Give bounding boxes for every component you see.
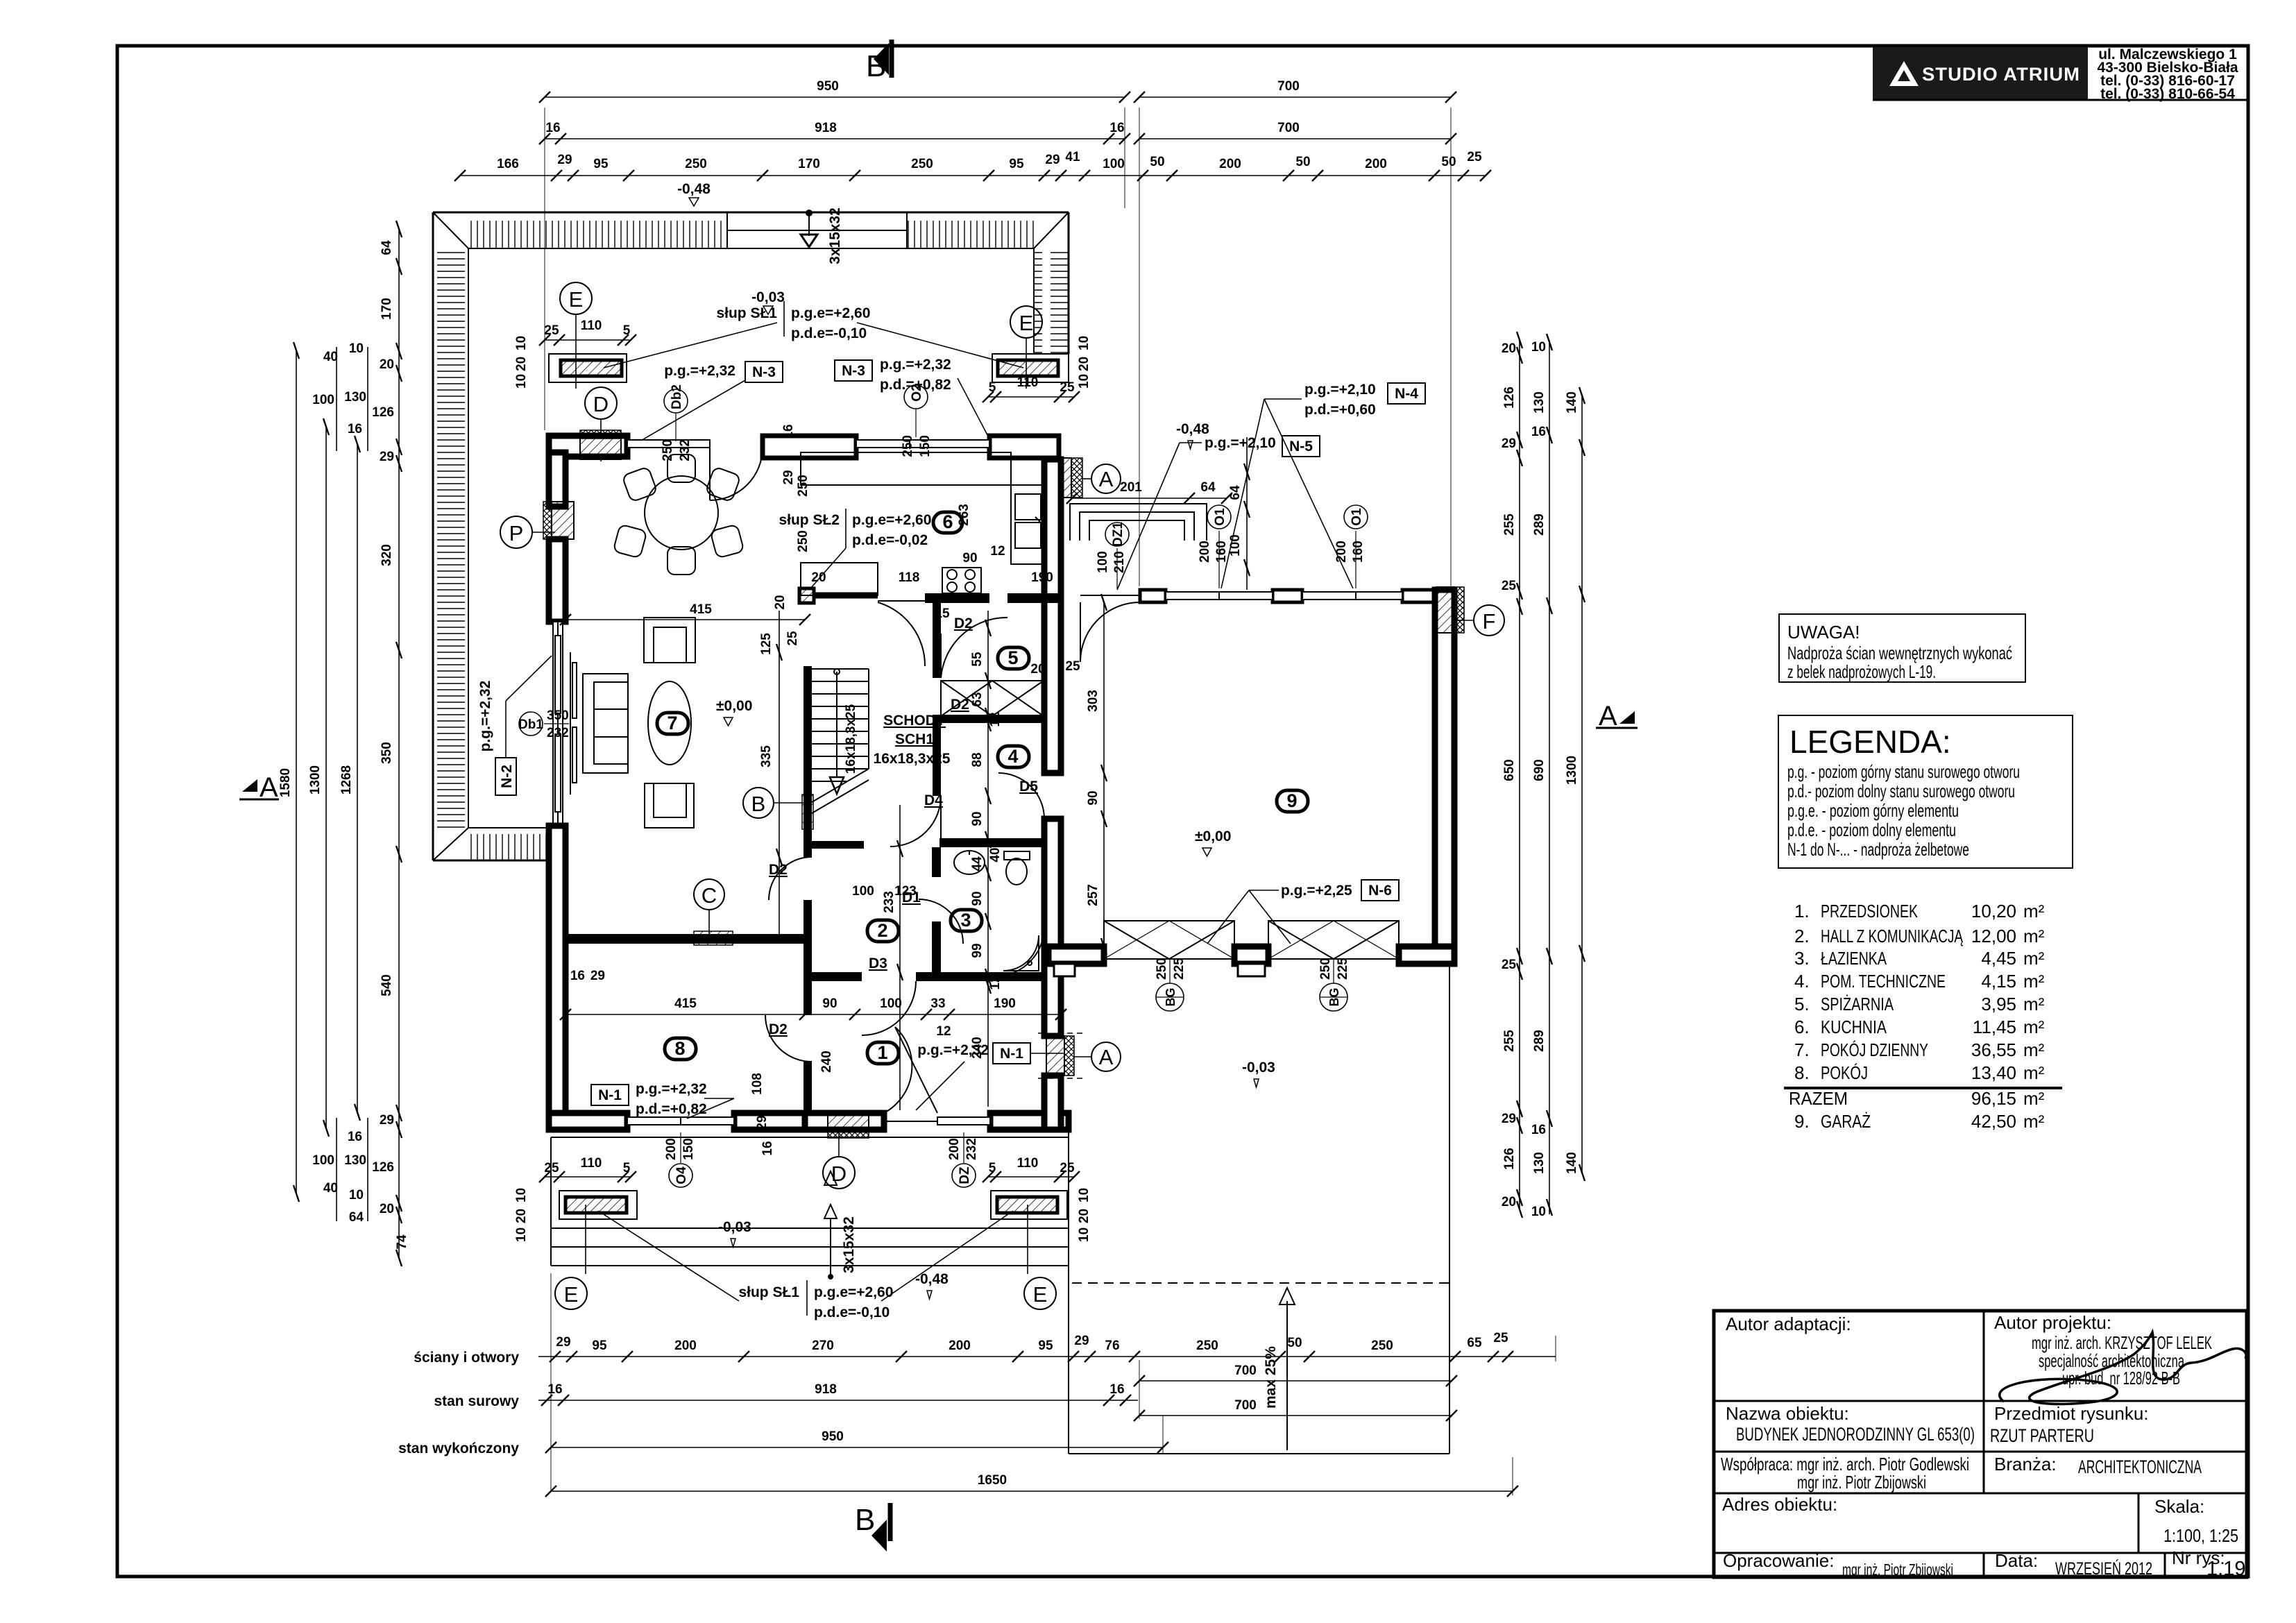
svg-text:ŁAZIENKA: ŁAZIENKA — [1821, 948, 1887, 969]
svg-text:650: 650 — [1502, 759, 1517, 781]
svg-text:130: 130 — [344, 390, 366, 405]
svg-text:918: 918 — [815, 121, 837, 135]
door D2 hall upper arc — [769, 857, 812, 900]
svg-text:170: 170 — [798, 157, 820, 171]
dim bottom row 3 — [545, 1442, 1168, 1453]
door D2 spiżarnia arc — [941, 618, 1007, 678]
elevation -0,03 bottom terrace — [718, 1219, 751, 1247]
svg-text:N-1 do N-... - nadproża żelbet: N-1 do N-... - nadproża żelbetowe — [1787, 839, 1969, 860]
DZ1 circle label — [1096, 522, 1129, 588]
door D2 hall lower arc — [765, 1015, 812, 1062]
svg-text:126: 126 — [1502, 1148, 1517, 1170]
svg-text:64: 64 — [349, 1210, 364, 1225]
kitchen right counter with sink — [1011, 485, 1044, 564]
svg-text:10: 10 — [1077, 1227, 1091, 1242]
dim 25|110|5 bottom-left footing — [539, 1171, 636, 1182]
svg-text:29: 29 — [590, 969, 605, 983]
svg-text:29: 29 — [1502, 436, 1516, 451]
O1 circle label right — [1334, 505, 1368, 588]
svg-text:250: 250 — [685, 157, 707, 171]
svg-text:3: 3 — [960, 910, 971, 931]
svg-text:415: 415 — [674, 996, 697, 1011]
svg-text:16: 16 — [1109, 121, 1124, 135]
svg-text:p.d.e=-0,10: p.d.e=-0,10 — [814, 1305, 890, 1320]
dim 201|64 above garage — [1066, 493, 1232, 504]
svg-text:16: 16 — [348, 422, 362, 436]
svg-text:12: 12 — [936, 1024, 951, 1039]
pom.tech left wall — [933, 723, 941, 796]
svg-text:-0,48: -0,48 — [677, 181, 711, 197]
svg-text:140: 140 — [1565, 391, 1579, 414]
svg-text:190: 190 — [994, 996, 1016, 1011]
svg-text:p.g.e=+2,60: p.g.e=+2,60 — [791, 305, 870, 321]
D marker top — [585, 387, 617, 461]
left outer wall upper — [549, 452, 566, 507]
column footing top-right with E marker — [992, 306, 1069, 389]
svg-text:p.g.=+2,32: p.g.=+2,32 — [636, 1081, 707, 1097]
svg-text:B: B — [751, 792, 766, 816]
elevation ±0,00 room7 — [716, 698, 752, 726]
O4 circle label bottom — [664, 1132, 696, 1187]
svg-text:16: 16 — [1531, 1123, 1546, 1137]
dim bottom row 4 — [545, 1486, 1518, 1497]
N-1 box left with leader — [591, 1081, 734, 1119]
svg-text:SPIŻARNIA: SPIŻARNIA — [1821, 994, 1894, 1014]
svg-text:335: 335 — [759, 745, 774, 767]
svg-text:A: A — [1099, 467, 1114, 491]
svg-text:Skala:: Skala: — [2154, 1496, 2204, 1517]
svg-text:E: E — [1019, 311, 1034, 335]
hall top wall — [807, 838, 1042, 849]
svg-text:918: 918 — [815, 1382, 837, 1397]
svg-text:25: 25 — [1493, 1331, 1508, 1345]
svg-text:E: E — [569, 287, 584, 312]
dim row top 16|918|16 / 700 — [539, 133, 1456, 144]
door D3 arc — [862, 981, 916, 1035]
svg-text:130: 130 — [1532, 391, 1547, 414]
svg-text:p.g.e=+2,60: p.g.e=+2,60 — [852, 512, 931, 528]
svg-text:Opracowanie:: Opracowanie: — [1723, 1550, 1834, 1571]
svg-text:10: 10 — [514, 1227, 529, 1242]
window O4 bottom 200/150 — [627, 1117, 734, 1125]
svg-text:8.: 8. — [1794, 1062, 1810, 1083]
extension lines bottom — [551, 1273, 1556, 1495]
room number ovals — [657, 511, 1308, 1064]
svg-text:41: 41 — [1065, 150, 1080, 164]
svg-text:110: 110 — [1017, 375, 1039, 390]
svg-text:C: C — [701, 883, 717, 908]
svg-text:289: 289 — [1532, 1030, 1547, 1052]
svg-text:55: 55 — [970, 652, 985, 667]
svg-text:33: 33 — [930, 996, 945, 1011]
svg-text:190: 190 — [1031, 570, 1053, 585]
svg-text:125: 125 — [759, 633, 774, 655]
svg-text:N-4: N-4 — [1395, 386, 1418, 402]
svg-text:100: 100 — [312, 1153, 334, 1168]
svg-text:m²: m² — [2023, 1111, 2045, 1132]
svg-text:1.: 1. — [1794, 901, 1810, 921]
svg-text:29: 29 — [1074, 1334, 1089, 1348]
door D5 arc garage — [998, 773, 1044, 819]
interior dim line room7 — [776, 611, 782, 934]
svg-text:p.g.=+2,10: p.g.=+2,10 — [1205, 435, 1276, 451]
B marker mid — [743, 788, 803, 818]
dim 25|110|5 above left footing — [539, 334, 636, 346]
DZ circle label bottom — [947, 1132, 979, 1187]
svg-text:126: 126 — [372, 405, 394, 420]
svg-text:25: 25 — [1060, 380, 1075, 395]
svg-text:90: 90 — [970, 891, 985, 906]
N-5 leader — [1117, 435, 1320, 590]
svg-text:P: P — [509, 521, 524, 545]
WALLS: outer wall top-left corner — [549, 430, 627, 459]
svg-text:20: 20 — [811, 570, 826, 585]
svg-text:240: 240 — [819, 1051, 834, 1073]
small interior dims — [570, 424, 1080, 1155]
svg-text:10: 10 — [514, 374, 529, 389]
svg-text:4,15: 4,15 — [1981, 971, 2016, 992]
svg-text:240: 240 — [970, 1037, 985, 1059]
svg-text:tel. (0-33) 810-66-54: tel. (0-33) 810-66-54 — [2100, 86, 2235, 102]
logo bar STUDIO ATRIUM — [1873, 47, 2248, 100]
svg-text:200: 200 — [1219, 157, 1241, 171]
svg-text:D: D — [831, 1162, 847, 1186]
svg-text:N-3: N-3 — [752, 364, 776, 380]
svg-text:110: 110 — [581, 318, 602, 333]
svg-text:SCHODY: SCHODY — [883, 713, 946, 729]
garage corner pier F (hatched) — [1436, 587, 1464, 633]
roof overhang hatched band bottom-left segment — [433, 828, 549, 860]
svg-text:88: 88 — [970, 752, 985, 767]
svg-text:29: 29 — [380, 1113, 394, 1128]
interior dim row 415 y893 — [560, 614, 810, 625]
svg-text:232: 232 — [547, 726, 569, 740]
svg-text:40: 40 — [323, 1181, 338, 1196]
svg-text:270: 270 — [812, 1339, 834, 1353]
svg-text:N-3: N-3 — [842, 363, 865, 379]
svg-text:3,95: 3,95 — [1981, 994, 2016, 1014]
svg-text:100: 100 — [1103, 157, 1125, 171]
svg-text:D3: D3 — [869, 955, 887, 971]
svg-text:20: 20 — [1077, 1209, 1091, 1223]
svg-text:16x18,3x25: 16x18,3x25 — [874, 751, 951, 767]
svg-text:50: 50 — [1287, 1336, 1302, 1350]
spiżarnia left wall — [933, 603, 941, 634]
słup SŁ1 leader text top — [604, 301, 1023, 368]
svg-text:p.g.e. - poziom górny elementu: p.g.e. - poziom górny elementu — [1787, 800, 1959, 821]
svg-text:6.: 6. — [1794, 1017, 1810, 1037]
A section marker right — [1596, 701, 1638, 731]
right outer wall of house — [1044, 459, 1061, 1130]
O2 circle label — [901, 384, 933, 457]
svg-text:1: 1 — [877, 1042, 887, 1063]
svg-text:D: D — [593, 392, 609, 416]
svg-text:Branża:: Branża: — [1994, 1454, 2057, 1475]
svg-text:29: 29 — [1045, 153, 1060, 167]
svg-text:950: 950 — [822, 1429, 844, 1444]
svg-text:1300: 1300 — [308, 765, 323, 794]
svg-text:20: 20 — [1077, 357, 1091, 371]
svg-text:16: 16 — [760, 1141, 775, 1155]
svg-text:10: 10 — [1531, 340, 1546, 355]
svg-text:WRZESIEŃ 2012: WRZESIEŃ 2012 — [2055, 1558, 2152, 1579]
D marker bottom — [823, 1132, 855, 1189]
svg-text:20: 20 — [1502, 341, 1516, 356]
svg-text:250: 250 — [796, 530, 810, 552]
svg-text:1580: 1580 — [278, 768, 293, 797]
door D2 kitchen arc — [878, 602, 925, 666]
column footing bottom-right — [991, 1191, 1067, 1309]
kitchen top counter — [801, 452, 1011, 485]
svg-text:m²: m² — [2023, 1088, 2045, 1109]
garage window O1 left — [1166, 592, 1273, 600]
svg-text:50: 50 — [1441, 155, 1456, 169]
svg-text:O2: O2 — [910, 384, 924, 401]
N-1 box right with leader — [916, 1042, 1064, 1110]
svg-text:100: 100 — [1228, 534, 1243, 556]
Db1 circle label — [518, 708, 569, 740]
B section marker bottom — [855, 1503, 890, 1552]
svg-text:Nazwa obiektu:: Nazwa obiektu: — [1726, 1403, 1849, 1424]
svg-text:232: 232 — [678, 439, 692, 461]
svg-text:20: 20 — [1502, 1195, 1516, 1209]
svg-text:250: 250 — [796, 475, 810, 497]
svg-text:25: 25 — [1502, 579, 1517, 593]
svg-text:20: 20 — [380, 1202, 394, 1216]
roof overhang hatched band left — [433, 212, 468, 860]
svg-text:5: 5 — [623, 1161, 631, 1175]
svg-text:210: 210 — [1112, 551, 1127, 573]
svg-text:7: 7 — [667, 713, 677, 733]
svg-text:16: 16 — [1531, 425, 1546, 439]
signature — [2000, 1332, 2246, 1404]
A marker bottom — [1074, 1042, 1121, 1071]
B section marker top — [866, 40, 892, 83]
door D4 arc — [890, 796, 941, 847]
F marker — [1456, 605, 1504, 636]
svg-text:289: 289 — [1532, 513, 1547, 536]
svg-text:42,50: 42,50 — [1971, 1111, 2016, 1132]
svg-text:12: 12 — [990, 544, 1005, 559]
svg-text:POKÓJ DZIENNY: POKÓJ DZIENNY — [1821, 1039, 1928, 1060]
bathroom washbasin — [954, 851, 985, 874]
svg-text:5: 5 — [1007, 647, 1018, 668]
svg-text:KUCHNIA: KUCHNIA — [1821, 1017, 1887, 1037]
svg-text:16: 16 — [781, 424, 796, 439]
svg-text:130: 130 — [344, 1153, 366, 1168]
svg-text:m²: m² — [2023, 1017, 2045, 1037]
svg-text:350: 350 — [547, 708, 569, 723]
svg-text:95: 95 — [1009, 157, 1024, 171]
svg-text:950: 950 — [817, 79, 839, 94]
roof overhang hatched band top — [433, 212, 1069, 248]
svg-text:11,45: 11,45 — [1973, 1017, 2016, 1037]
svg-text:225: 225 — [1172, 958, 1187, 980]
svg-text:ARCHITEKTONICZNA: ARCHITEKTONICZNA — [2078, 1456, 2202, 1477]
svg-text:90: 90 — [962, 551, 977, 566]
BG circle 1 — [1155, 958, 1187, 1011]
svg-text:E: E — [1033, 1282, 1048, 1307]
dim bottom row 1 chain — [538, 1351, 1556, 1362]
svg-text:4.: 4. — [1794, 971, 1810, 992]
svg-text:700: 700 — [1234, 1398, 1257, 1413]
svg-text:±0,00: ±0,00 — [1195, 829, 1231, 844]
svg-text:Db1: Db1 — [518, 717, 543, 732]
svg-text:20: 20 — [1030, 662, 1045, 677]
N-6 leader garage — [1207, 880, 1399, 944]
svg-text:p.g. - poziom górny stanu suro: p.g. - poziom górny stanu surowego otwor… — [1787, 761, 2020, 782]
max 25% ramp arrow — [1263, 1288, 1295, 1450]
svg-text:123: 123 — [894, 884, 917, 899]
svg-text:D5: D5 — [1019, 779, 1038, 794]
svg-text:100: 100 — [880, 996, 902, 1011]
svg-text:N-1: N-1 — [598, 1087, 622, 1103]
svg-text:Adres obiektu:: Adres obiektu: — [1722, 1494, 1837, 1515]
svg-text:-0,48: -0,48 — [915, 1271, 949, 1287]
svg-text:700: 700 — [1277, 121, 1300, 135]
svg-text:170: 170 — [380, 298, 394, 320]
svg-text:118: 118 — [899, 570, 920, 585]
svg-text:A: A — [1099, 1045, 1114, 1069]
svg-text:Data:: Data: — [1995, 1550, 2038, 1571]
svg-text:100: 100 — [1096, 551, 1110, 573]
garage window O1 right — [1302, 592, 1402, 600]
svg-text:99: 99 — [970, 943, 985, 958]
svg-text:8: 8 — [674, 1038, 685, 1059]
svg-text:N-2: N-2 — [499, 765, 515, 788]
rotated 10 20 10 right footing — [1077, 336, 1091, 389]
svg-text:25: 25 — [1065, 659, 1080, 674]
dim row top detailed chain — [454, 170, 1491, 181]
svg-text:29: 29 — [755, 1115, 769, 1130]
dim 64|100 rotated right of chimney — [1244, 437, 1250, 590]
svg-text:263: 263 — [957, 504, 971, 526]
svg-text:257: 257 — [1086, 884, 1100, 906]
A section marker left — [239, 772, 279, 803]
svg-text:BG: BG — [1327, 988, 1341, 1007]
column footing top-left with E marker — [549, 282, 627, 389]
svg-text:p.g.=+2,32: p.g.=+2,32 — [477, 681, 493, 752]
svg-text:m²: m² — [2023, 971, 2045, 992]
dim bottom row labels — [398, 1350, 519, 1456]
dim right chain 3 — [1579, 387, 1585, 1181]
svg-text:690: 690 — [1532, 759, 1547, 781]
window DZ bottom 200/232 — [937, 1117, 990, 1125]
svg-text:Przedmiot rysunku:: Przedmiot rysunku: — [1994, 1403, 2149, 1424]
svg-text:3x15x32: 3x15x32 — [827, 207, 843, 264]
dim 5|110|25 above right footing — [983, 391, 1080, 402]
door DZ1 garage arc — [1080, 595, 1140, 662]
dim left col 1268 — [355, 436, 360, 1121]
elevation -0,48 top — [677, 181, 711, 206]
svg-text:N-1: N-1 — [1000, 1046, 1023, 1062]
svg-text:50: 50 — [1150, 155, 1164, 169]
svg-text:166: 166 — [497, 157, 519, 171]
room schedule table — [1784, 901, 2062, 1132]
svg-text:16: 16 — [1109, 1382, 1124, 1397]
svg-text:POM. TECHNICZNE: POM. TECHNICZNE — [1821, 971, 1946, 992]
svg-text:m²: m² — [2023, 901, 2045, 921]
svg-text:1.19: 1.19 — [2206, 1558, 2245, 1580]
svg-text:1268: 1268 — [339, 765, 354, 794]
svg-text:250: 250 — [901, 435, 915, 457]
svg-text:10: 10 — [1531, 1205, 1546, 1219]
left outer wall middle — [549, 539, 566, 622]
svg-text:40: 40 — [988, 847, 1003, 862]
svg-text:7.: 7. — [1794, 1039, 1810, 1060]
svg-text:A: A — [260, 772, 278, 803]
dim right chain 2 — [1547, 334, 1552, 1216]
svg-text:UWAGA!: UWAGA! — [1787, 622, 1860, 643]
title block — [1714, 1311, 2247, 1580]
svg-text:p.d.e=-0,02: p.d.e=-0,02 — [852, 532, 928, 548]
svg-text:10: 10 — [349, 341, 364, 356]
svg-text:250: 250 — [1155, 958, 1169, 980]
svg-text:25: 25 — [1502, 958, 1517, 972]
svg-text:słup SŁ2: słup SŁ2 — [779, 512, 840, 528]
svg-text:m²: m² — [2023, 926, 2045, 946]
svg-text:D4: D4 — [924, 792, 943, 808]
terrace bottom slab — [551, 1137, 1069, 1266]
svg-text:130: 130 — [1532, 1152, 1547, 1174]
svg-text:40: 40 — [323, 350, 338, 364]
wall spiżarnia/pom.tech — [933, 715, 1042, 723]
spiżarnia shelves X — [941, 681, 1044, 716]
svg-text:25: 25 — [544, 1161, 559, 1175]
svg-text:25: 25 — [1060, 1161, 1075, 1175]
svg-text:50: 50 — [1295, 155, 1310, 169]
P marker — [500, 516, 555, 548]
driveway below garage — [1069, 964, 1449, 1454]
BG circle 2 — [1318, 958, 1350, 1011]
svg-text:15: 15 — [935, 606, 950, 621]
interior dim col x1591 — [1101, 594, 1107, 955]
svg-text:DZ: DZ — [958, 1166, 972, 1184]
svg-text:2.: 2. — [1794, 926, 1810, 946]
svg-text:255: 255 — [1502, 1030, 1517, 1052]
svg-text:10: 10 — [514, 336, 529, 350]
svg-text:m²: m² — [2023, 1062, 2045, 1083]
garage bottom wall with gates — [1048, 946, 1454, 976]
svg-text:74: 74 — [395, 1234, 409, 1250]
svg-text:126: 126 — [1502, 386, 1517, 409]
svg-text:95: 95 — [1038, 1339, 1053, 1353]
stove 4 burners — [942, 568, 981, 593]
svg-text:63: 63 — [970, 692, 985, 706]
svg-text:5: 5 — [623, 323, 631, 338]
svg-text:25: 25 — [544, 323, 559, 338]
svg-text:RZUT PARTERU: RZUT PARTERU — [1990, 1425, 2094, 1446]
interior dim row 415 y1462 — [560, 1009, 1066, 1020]
svg-text:12: 12 — [988, 712, 1003, 726]
svg-text:p.d.- poziom dolny stanu surow: p.d.- poziom dolny stanu surowego otworu — [1787, 781, 2015, 801]
N-2 box rotated with leader — [477, 656, 552, 795]
svg-text:A: A — [1599, 701, 1617, 731]
svg-text:90: 90 — [822, 996, 837, 1011]
dim bottom right 700 rows — [1134, 1375, 1457, 1421]
svg-text:LEGENDA:: LEGENDA: — [1789, 724, 1951, 760]
svg-text:4: 4 — [1007, 746, 1018, 767]
svg-text:m²: m² — [2023, 994, 2045, 1014]
garage left wall — [1044, 964, 1061, 1036]
interior dim col x1424 — [985, 611, 991, 1107]
svg-text:12: 12 — [988, 975, 1003, 989]
wall pier top middle — [763, 436, 856, 458]
svg-text:10: 10 — [1077, 336, 1091, 350]
svg-text:BUDYNEK JEDNORODZINNY GL 653(0: BUDYNEK JEDNORODZINNY GL 653(0) — [1736, 1424, 1975, 1445]
svg-text:64: 64 — [380, 240, 394, 255]
stairs hall wall — [802, 666, 813, 1113]
